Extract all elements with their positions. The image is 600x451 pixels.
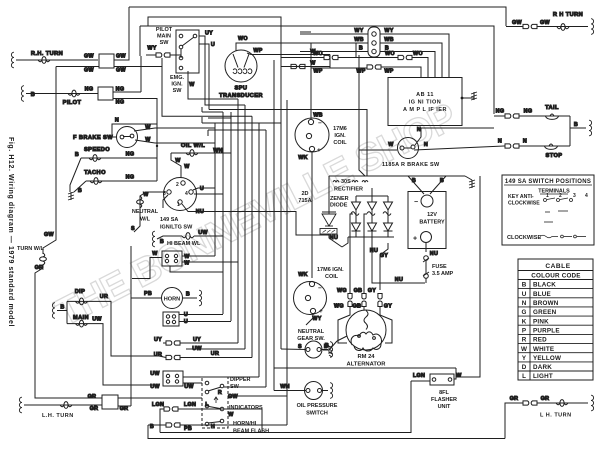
label RM 24 bbox=[347, 354, 387, 368]
harness end (L.H. turn front) bbox=[19, 397, 22, 413]
svg-text:W: W bbox=[184, 254, 190, 260]
svg-text:UR: UR bbox=[100, 294, 108, 300]
label CLOCKWISE bbox=[507, 235, 541, 241]
coil 17M6 ignition coil (lower) bbox=[294, 282, 327, 315]
svg-text:149 SA: 149 SA bbox=[160, 217, 178, 223]
wire WG to alternator bbox=[338, 307, 350, 343]
svg-text:UY: UY bbox=[154, 337, 162, 343]
wire rectifier DC bus bbox=[348, 236, 394, 238]
wire trunk x231 bbox=[230, 153, 232, 321]
label TURN W/L bbox=[17, 246, 45, 252]
wire UR dip to connector bbox=[67, 301, 159, 356]
svg-text:N: N bbox=[417, 127, 421, 133]
wire hi beam warning lamp bbox=[157, 236, 182, 239]
label 149 SA IGN/LTG SW bbox=[160, 217, 193, 231]
wire B to amplifier bbox=[380, 52, 435, 78]
svg-text:NG: NG bbox=[496, 109, 505, 115]
svg-text:NG: NG bbox=[126, 152, 135, 158]
svg-text:ZENER: ZENER bbox=[330, 196, 349, 202]
wire GW up to junction bbox=[114, 7, 129, 60]
svg-text:UW: UW bbox=[150, 384, 160, 390]
svg-text:−: − bbox=[318, 120, 322, 127]
svg-text:UW: UW bbox=[92, 317, 102, 323]
svg-text:2: 2 bbox=[559, 193, 562, 199]
svg-text:N: N bbox=[523, 139, 527, 145]
fuse 3.5A bbox=[424, 256, 429, 261]
wire N front brake to feed bbox=[112, 124, 157, 137]
svg-text:BLUE: BLUE bbox=[533, 291, 551, 298]
connector WG bbox=[348, 294, 352, 307]
svg-text:IGN/LTG SW: IGN/LTG SW bbox=[160, 225, 193, 231]
amplifier AB11 ignition amplifier bbox=[388, 78, 462, 126]
ground (battery B bus) bbox=[469, 180, 475, 188]
wire L.H. turn front bbox=[24, 404, 102, 406]
horn bbox=[162, 288, 183, 309]
svg-text:B: B bbox=[31, 92, 35, 98]
harness end (dip/main feed) bbox=[52, 303, 55, 319]
svg-text:LGN: LGN bbox=[152, 402, 164, 408]
svg-text:WO: WO bbox=[238, 36, 248, 42]
switch position row 2 contacts bbox=[545, 211, 568, 212]
svg-text:IGN.: IGN. bbox=[171, 82, 183, 88]
wire trunk x238 bbox=[237, 99, 239, 343]
svg-text:NG: NG bbox=[524, 109, 533, 115]
rectifier terminal squiggles bbox=[333, 181, 368, 183]
label OIL PRESSURE SWITCH bbox=[297, 403, 338, 417]
wire UW main to relay bbox=[67, 324, 160, 385]
wire B neutral switch to earth bbox=[321, 349, 328, 351]
switch position row 3 contacts bbox=[544, 221, 553, 223]
svg-text:R: R bbox=[218, 390, 222, 396]
svg-text:RM 24: RM 24 bbox=[357, 354, 375, 360]
svg-text:W: W bbox=[388, 142, 394, 148]
label plus bbox=[317, 147, 321, 154]
label minus bbox=[414, 199, 418, 206]
svg-text:G: G bbox=[522, 309, 527, 316]
svg-text:RECTIFIER: RECTIFIER bbox=[334, 187, 363, 193]
connector block GR bbox=[102, 395, 118, 409]
coil 17M6 ignition coil (upper) bbox=[295, 118, 329, 152]
wire trunk x274 bbox=[273, 60, 275, 391]
wire NG rise to emergency switch bbox=[140, 56, 142, 92]
lamp R.H. turn rear bbox=[557, 24, 569, 31]
wire B speedo-tacho common bbox=[70, 158, 81, 192]
svg-text:WP: WP bbox=[313, 69, 322, 75]
label EMG IGN SW bbox=[170, 75, 185, 94]
harness end (L.H. turn rear) bbox=[591, 395, 594, 411]
wire from emergency fuse to trunk bbox=[162, 58, 252, 116]
diode rectifier column 2 upper bbox=[368, 196, 377, 210]
wire dipper out bbox=[224, 386, 266, 388]
connector GW rear bbox=[523, 24, 537, 28]
wire W flasher feed bbox=[274, 367, 456, 369]
svg-text:SW: SW bbox=[173, 88, 183, 94]
harness earth (oil pressure) bbox=[330, 383, 333, 399]
svg-text:GR: GR bbox=[120, 406, 129, 412]
svg-text:B: B bbox=[78, 188, 82, 194]
svg-text:R H TURN: R H TURN bbox=[553, 12, 583, 18]
svg-text:UNIT: UNIT bbox=[438, 404, 451, 410]
svg-text:NU: NU bbox=[330, 235, 338, 241]
wire trunk x131 up bbox=[130, 246, 132, 406]
svg-text:TURN W/L: TURN W/L bbox=[17, 246, 45, 252]
svg-text:PINK: PINK bbox=[533, 318, 549, 325]
svg-text:DIPPER: DIPPER bbox=[230, 377, 251, 383]
svg-text:STOP: STOP bbox=[546, 153, 563, 159]
wire WG up to rectifier AC tap bbox=[350, 214, 353, 293]
svg-text:3: 3 bbox=[573, 193, 576, 199]
svg-text:3: 3 bbox=[163, 191, 166, 197]
rectifier column 3 squiggle bbox=[383, 210, 391, 215]
svg-text:WK: WK bbox=[298, 155, 308, 161]
connector WP bbox=[367, 65, 381, 69]
table title underline bbox=[504, 184, 592, 186]
wire NU zener to bus bbox=[329, 234, 342, 247]
horn/flash switch contacts bbox=[205, 422, 209, 426]
svg-text:+: + bbox=[317, 147, 321, 154]
table row D DARK bbox=[522, 364, 553, 371]
wire WY stub bbox=[300, 31, 311, 33]
svg-text:−: − bbox=[318, 285, 322, 292]
label HI BEAM WL bbox=[167, 241, 201, 247]
figure caption bbox=[7, 137, 14, 327]
svg-text:MAIN: MAIN bbox=[157, 34, 171, 40]
wire U from switch bbox=[199, 44, 209, 110]
label 1185A R BRAKE SW bbox=[382, 162, 440, 168]
svg-text:GREEN: GREEN bbox=[533, 309, 557, 316]
svg-text:P: P bbox=[522, 327, 526, 334]
svg-text:1185A R BRAKE SW: 1185A R BRAKE SW bbox=[382, 162, 440, 168]
harness end (hi beam warning) bbox=[152, 231, 155, 247]
wire fuse to NU bus bbox=[425, 278, 427, 283]
svg-text:W: W bbox=[228, 412, 234, 418]
wire rail drop bbox=[139, 26, 141, 56]
wire GW trunk down to turn warning lamp bbox=[43, 67, 56, 255]
wire B to battery negative bbox=[408, 176, 424, 194]
wire speedo lamp bbox=[81, 157, 155, 159]
diode rectifier column 1 lower bbox=[352, 215, 361, 237]
connector block GW (snap connector pair) bbox=[99, 54, 114, 68]
clockwise contact row bbox=[540, 235, 586, 238]
connector block dip switch (UW) bbox=[163, 371, 183, 386]
svg-text:GR: GR bbox=[88, 394, 97, 400]
wire trunk x259 bbox=[258, 123, 260, 377]
wire UW link bbox=[186, 348, 245, 350]
connector WO second bbox=[398, 55, 412, 59]
svg-text:UY: UY bbox=[193, 337, 201, 343]
wire UR join bbox=[159, 356, 166, 358]
wire W link from trunk bbox=[281, 66, 330, 68]
connector UR bbox=[166, 355, 180, 359]
svg-text:R: R bbox=[522, 337, 527, 344]
svg-text:UR: UR bbox=[211, 351, 219, 357]
harness earth (horn) bbox=[199, 290, 202, 306]
svg-text:3.5 AMP: 3.5 AMP bbox=[432, 271, 454, 277]
wire tacho lamp bbox=[86, 180, 157, 182]
switch neutral gear bbox=[305, 341, 322, 358]
label minus bbox=[318, 120, 322, 127]
svg-text:PURPLE: PURPLE bbox=[533, 327, 560, 334]
svg-text:17M6: 17M6 bbox=[333, 126, 347, 132]
alternator stator windings bbox=[351, 311, 381, 352]
connector LGN bbox=[164, 407, 178, 411]
rotary contact numbers bbox=[163, 182, 188, 208]
wire WP from transducer bbox=[247, 53, 330, 55]
wire WO to amplifier bbox=[412, 58, 428, 78]
wire stub bbox=[201, 107, 203, 112]
svg-text:GY: GY bbox=[368, 288, 376, 294]
wire B bus from brake switch bbox=[359, 150, 365, 176]
label CABLE bbox=[545, 263, 570, 270]
lamp TURN warning bbox=[40, 253, 47, 265]
lamp STOP bbox=[545, 144, 558, 149]
lamp DIP beam bbox=[76, 298, 88, 305]
svg-text:17M6 IGN.: 17M6 IGN. bbox=[317, 267, 344, 273]
wire B tacho down bbox=[74, 181, 86, 192]
wire GW to R.H. turn lamp bbox=[16, 59, 98, 61]
svg-text:GB: GB bbox=[354, 288, 363, 294]
svg-text:WO: WO bbox=[413, 51, 423, 57]
wire UR to trunk bbox=[180, 357, 252, 359]
svg-text:W: W bbox=[521, 346, 527, 353]
svg-text:W: W bbox=[456, 373, 462, 379]
wire trunk x223 upper bbox=[222, 112, 224, 194]
lamp TAIL bbox=[546, 114, 559, 119]
table cable colour code bbox=[518, 259, 593, 380]
wire oil pressure to earth bbox=[322, 390, 329, 392]
svg-text:IG NI TION: IG NI TION bbox=[409, 100, 442, 106]
label plus bbox=[413, 236, 417, 243]
wire N brake switch up to junction bbox=[415, 128, 494, 145]
wire W box bottom to trunk bbox=[170, 266, 223, 272]
decorative watermark (not labelled further) bbox=[49, 96, 463, 335]
svg-text:WY: WY bbox=[312, 316, 321, 322]
label HORN/HI BEAM FLASH bbox=[233, 421, 269, 435]
wire GW to rear turn lamp bbox=[537, 26, 588, 28]
wire WY stub bbox=[146, 54, 156, 56]
wire GR to L.H. turn rear bbox=[537, 402, 588, 404]
connector NG bbox=[505, 114, 519, 118]
wire WB into connector bbox=[311, 42, 368, 44]
svg-text:149 SA SWITCH POSITIONS: 149 SA SWITCH POSITIONS bbox=[505, 179, 591, 185]
svg-text:A M P L IF IER: A M P L IF IER bbox=[403, 107, 447, 113]
connector block NG bbox=[98, 87, 113, 100]
svg-text:GR: GR bbox=[35, 265, 44, 271]
svg-text:GR: GR bbox=[90, 406, 99, 412]
svg-text:GW: GW bbox=[512, 20, 522, 26]
coil terminals bbox=[308, 119, 313, 124]
svg-text:YELLOW: YELLOW bbox=[533, 355, 561, 362]
wire GB up to rectifier AC tap bbox=[364, 214, 367, 293]
svg-text:B: B bbox=[359, 46, 363, 52]
wire WB coil to connector bbox=[310, 43, 312, 119]
svg-text:INDICATORS: INDICATORS bbox=[229, 405, 263, 411]
svg-text:OIL PRESSURE: OIL PRESSURE bbox=[297, 403, 338, 409]
wire trunk x223 bbox=[222, 194, 224, 314]
junction dot bbox=[461, 97, 464, 100]
svg-text:WO: WO bbox=[385, 51, 395, 57]
svg-text:−: − bbox=[414, 199, 418, 206]
wire NG feed drop bbox=[156, 146, 158, 181]
svg-text:DIODE: DIODE bbox=[330, 203, 348, 209]
table grid lines bbox=[518, 271, 593, 381]
alternator RM24 bbox=[346, 310, 386, 350]
svg-text:UW: UW bbox=[198, 230, 208, 236]
label INDICATORS bbox=[229, 405, 263, 411]
switch front brake bbox=[117, 127, 138, 148]
svg-text:CLOCKWISE: CLOCKWISE bbox=[507, 235, 541, 241]
wire U box upper to trunk bbox=[179, 314, 223, 316]
wire U box lower to trunk bbox=[179, 321, 231, 323]
svg-text:GW: GW bbox=[228, 394, 238, 400]
ground (instruments) bbox=[68, 192, 74, 200]
svg-text:GW: GW bbox=[84, 68, 94, 74]
wire trunk x231 stub bbox=[230, 112, 232, 118]
wire tail to B junction bbox=[570, 116, 586, 128]
svg-text:D: D bbox=[522, 364, 527, 371]
connector GR rear bbox=[523, 401, 537, 405]
wire W box to trunk lower bbox=[182, 261, 238, 263]
wire trunk x287 bbox=[286, 100, 288, 425]
svg-text:U: U bbox=[522, 291, 527, 298]
wire B bus to earth bbox=[446, 175, 465, 177]
svg-text:UW: UW bbox=[150, 371, 160, 377]
svg-text:WP: WP bbox=[253, 48, 262, 54]
table 149SA switch positions bbox=[502, 175, 594, 245]
U box contacts bbox=[166, 315, 169, 318]
wire B to connector bbox=[148, 424, 166, 426]
wire amplifier earth bbox=[462, 97, 474, 99]
svg-text:PB: PB bbox=[144, 291, 152, 297]
label TERMINALS bbox=[538, 189, 570, 195]
svg-text:WP: WP bbox=[384, 69, 393, 75]
terminal numbers 1 2 3 4 bbox=[546, 193, 588, 199]
lamp L.H. TURN front bbox=[60, 402, 72, 409]
svg-text:+: + bbox=[319, 308, 323, 315]
svg-text:WB: WB bbox=[354, 37, 364, 43]
diode rectifier column 3 lower bbox=[384, 215, 393, 237]
harness earth (neutral switch) bbox=[330, 342, 333, 358]
wire step to trunk y130 bbox=[208, 129, 266, 131]
harness end (R.H. turn feed) bbox=[11, 52, 14, 68]
diode rectifier column 3 upper bbox=[384, 196, 393, 210]
wire B into connector bbox=[300, 51, 368, 53]
svg-text:FLASHER: FLASHER bbox=[431, 397, 457, 403]
svg-text:SW: SW bbox=[160, 40, 170, 46]
table row U BLUE bbox=[522, 291, 551, 298]
svg-text:B: B bbox=[522, 282, 527, 289]
svg-text:NG: NG bbox=[126, 175, 135, 181]
wire GY rectifier to alternator bbox=[380, 243, 388, 290]
switch 1185A rear brake switch bbox=[398, 138, 419, 159]
wire rail to tail lamp feed bbox=[140, 26, 494, 114]
svg-text:WG: WG bbox=[337, 288, 347, 294]
svg-text:F BRAKE SW: F BRAKE SW bbox=[73, 135, 113, 141]
label PILOT MAIN SW bbox=[156, 27, 173, 46]
svg-text:AB 11: AB 11 bbox=[416, 92, 434, 98]
wire NU rectifier output bbox=[371, 237, 373, 247]
wire step to trunk y123 bbox=[202, 122, 259, 124]
wire W feed down right side bbox=[456, 176, 480, 377]
wire GW lower to connector bbox=[56, 66, 99, 68]
svg-text:W: W bbox=[189, 82, 195, 88]
wire NU ign switch to zener bbox=[182, 204, 329, 235]
svg-text:WK: WK bbox=[298, 272, 308, 278]
svg-text:GR: GR bbox=[541, 396, 550, 402]
svg-text:SPEEDO: SPEEDO bbox=[84, 147, 110, 153]
wire GR lower from connector bbox=[118, 405, 131, 407]
rectifier column 2 squiggle bbox=[367, 210, 375, 215]
table row P PURPLE bbox=[522, 327, 560, 334]
lamp HI BEAM warning bbox=[182, 233, 194, 240]
wire WP jog bbox=[330, 55, 341, 69]
svg-text:NG: NG bbox=[116, 100, 125, 106]
label FUSE 3.5 AMP bbox=[432, 264, 454, 277]
wire stop to B junction bbox=[569, 128, 571, 146]
wire NG to tail lamp bbox=[519, 115, 570, 117]
connector 3-way (WY/WB/B) bbox=[368, 27, 380, 57]
wire loop bottom bbox=[148, 425, 505, 439]
table row R RED bbox=[522, 337, 547, 344]
lamp PILOT bbox=[68, 90, 80, 97]
wire zener feed from B bus bbox=[328, 176, 330, 212]
wire UY to trunk bbox=[180, 342, 238, 344]
wire dip/main left link bbox=[66, 301, 68, 323]
wire WO from transducer bbox=[236, 43, 356, 57]
pilot feed terminal bbox=[26, 93, 32, 95]
svg-text:UR: UR bbox=[154, 352, 162, 358]
svg-text:COIL: COIL bbox=[333, 140, 347, 146]
wire NG lower down to speedo feed bbox=[113, 99, 157, 147]
indicator switch contacts bbox=[205, 404, 209, 408]
wire stub bbox=[207, 130, 209, 136]
svg-text:4: 4 bbox=[185, 191, 188, 197]
svg-text:NEUTRAL: NEUTRAL bbox=[132, 209, 159, 215]
harness end (pilot feed) bbox=[21, 86, 24, 102]
label NEUTRAL W/L bbox=[132, 209, 159, 223]
svg-text:OIL W/L: OIL W/L bbox=[181, 143, 205, 149]
svg-text:WB: WB bbox=[384, 37, 394, 43]
wire trunk x245 bbox=[244, 105, 246, 349]
svg-text:IGN.: IGN. bbox=[334, 133, 346, 139]
svg-text:K: K bbox=[522, 318, 527, 325]
lamp SPEEDO illumination bbox=[89, 155, 101, 162]
switch handlebar cluster bbox=[202, 377, 228, 428]
label 30S RECTIFIER bbox=[334, 179, 363, 193]
wire UW box to trunk bbox=[183, 376, 259, 378]
table row B BLACK bbox=[522, 282, 557, 289]
wire N brake switch to stop lamp bbox=[414, 146, 504, 150]
svg-text:CABLE: CABLE bbox=[545, 263, 570, 270]
svg-text:8FL: 8FL bbox=[439, 390, 449, 396]
wire GW to connector bbox=[506, 26, 523, 28]
svg-text:TAIL: TAIL bbox=[545, 105, 559, 111]
connector GB bbox=[362, 294, 366, 307]
wire WP from coil bbox=[311, 67, 341, 69]
connector WO bbox=[324, 55, 338, 59]
svg-text:WY: WY bbox=[354, 28, 363, 34]
wire UY from switch to trunk bbox=[199, 36, 245, 105]
svg-text:NG: NG bbox=[85, 87, 94, 93]
wire trunk x281 bbox=[280, 30, 282, 349]
wire GR upper from connector bbox=[118, 397, 202, 399]
svg-text:W: W bbox=[152, 251, 158, 257]
neutral gear switch contacts bbox=[306, 348, 310, 352]
connector GY bbox=[378, 294, 382, 307]
connector PB bbox=[166, 423, 180, 427]
table row K PINK bbox=[522, 318, 549, 325]
svg-text:NU: NU bbox=[370, 248, 378, 254]
